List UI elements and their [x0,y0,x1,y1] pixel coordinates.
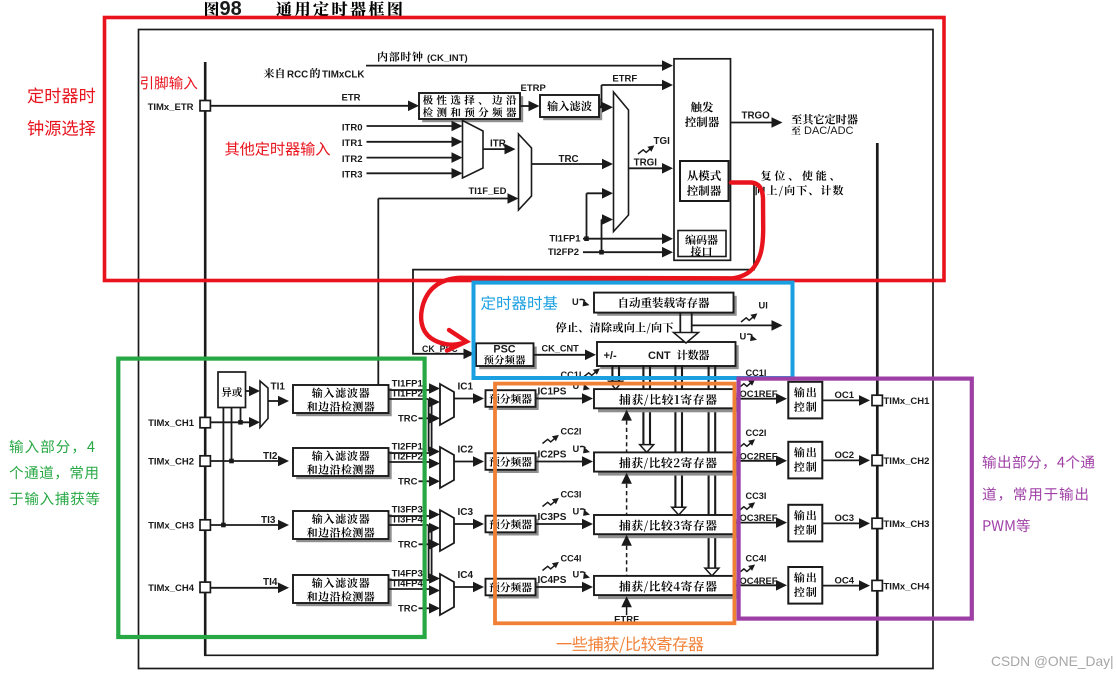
svg-text:TIMx_CH1: TIMx_CH1 [884,396,931,407]
block capture compare register 2 捕获/比较2寄存器 [594,452,738,475]
block input filter 输入滤波 [540,95,602,120]
wire OC3 [822,513,870,529]
block output control 1 输出控制 [788,382,822,419]
svg-text:CC2I: CC2I [746,428,767,438]
block capture compare register 3 捕获/比较3寄存器 [594,515,738,538]
flag CC3I [739,491,767,511]
wire ETRP [520,83,547,112]
flag CC3I input [543,490,582,507]
svg-text:TRC: TRC [398,414,418,425]
wire XOR output [246,386,261,397]
svg-text:TIMx_CH4: TIMx_CH4 [884,581,931,592]
svg-text:TI4FP4: TI4FP4 [392,579,424,590]
mux IC3 select [440,510,454,551]
wire ETRF to trigger controller [599,74,673,108]
wire XOR input from CH1 [238,408,243,425]
svg-text:OC2: OC2 [835,450,855,461]
annotation orange text 一些捕获/比较寄存器 [557,636,704,653]
flag CC2I input [543,427,582,444]
svg-text:+/-: +/- [604,350,617,362]
label 至其它定时器 至 DAC/ADC [791,114,857,137]
svg-text:CNT: CNT [648,350,671,362]
block prescaler IC1 预分频器 [486,390,539,410]
svg-text:TI1F_ED: TI1F_ED [468,186,506,197]
svg-text:IC4PS: IC4PS [538,575,567,586]
svg-text:TIMx_ETR: TIMx_ETR [148,102,194,113]
wire CNT to capture register 2 [640,365,654,452]
svg-text:IC2PS: IC2PS [538,449,567,460]
svg-text:ETRF: ETRF [612,74,637,85]
annotation purple text output channels [983,455,1095,532]
svg-text:U: U [573,569,580,579]
svg-text:TI3FP4: TI3FP4 [392,515,424,526]
pin TIMx_CH2 output [872,455,929,467]
event U into auto-reload [572,297,590,307]
wire OC3REF [735,512,788,528]
svg-text:ITR1: ITR1 [342,138,363,149]
svg-text:UI: UI [759,301,768,311]
wire IC4 [454,570,484,592]
wire TI4FP3 [389,569,432,581]
wire TRGI [629,158,674,174]
annotation blue text 定时器时基 [481,296,557,310]
annotation green frame input stage [118,359,424,637]
pin TIMx_CH1 output [872,395,930,407]
mux IC2 select [440,447,454,488]
svg-text:CC4I: CC4I [561,554,582,564]
block prescaler IC4 预分频器 [486,579,539,599]
annotation orange frame capture compare registers [495,384,734,624]
block auto-reload register 自动重装载寄存器 [594,293,737,316]
wire TRC channel 4 [398,603,440,615]
block output control 2 输出控制 [788,442,822,479]
block prescaler PSC 预分频器 [476,343,537,369]
svg-text:IC3PS: IC3PS [538,512,567,523]
block polarity selection 极性选择、边沿检测和预分频器 [419,93,523,122]
label 内部时钟 (CK_INT) [378,51,468,63]
svg-text:PSC: PSC [493,344,515,356]
outer diagram frame [139,30,934,669]
svg-text:CC3I: CC3I [746,491,767,501]
wire TRC channel 1 [398,413,440,425]
wire TI2FP2 [548,214,673,258]
pin TIMx_CH1 [148,417,210,429]
svg-text:OC2REF: OC2REF [740,450,778,461]
svg-text:U: U [573,506,580,516]
svg-text:TRC: TRC [398,540,418,551]
event U capture 2 [573,444,591,454]
mux IC1 select [440,384,454,425]
wire ITR0 [342,121,463,134]
svg-text:RCC: RCC [287,69,308,80]
svg-text:TI1: TI1 [271,382,286,393]
svg-text:TI4: TI4 [263,577,278,588]
wire CK_PSC from slave mode controller [413,184,754,360]
flag CC4I input [543,554,582,571]
block slave mode controller 从模式控制器 [680,161,729,201]
block prescaler IC3 预分频器 [486,516,539,536]
block encoder interface 编码器接口 [678,231,726,257]
wire compare dashed feedback 3 [621,535,632,576]
title 图98 通用定时器框图 [205,0,402,20]
svg-text:OC4REF: OC4REF [740,575,778,586]
wire CNT to capture register 4 [705,365,719,576]
wire ETR [210,92,419,111]
wire reload to counter hollow arrow [674,313,699,343]
wire TI2FP1 to IC1 mux [431,402,433,453]
pin TIMx_CH4 output [872,580,930,592]
mux TI1 select [260,381,268,428]
block capture compare register 1 捕获/比较1寄存器 [594,389,738,412]
wire ITR2 [342,152,463,165]
svg-text:ITR0: ITR0 [342,122,363,133]
svg-text:TRGO: TRGO [742,111,771,122]
wire update event [692,320,783,331]
wire TI4 [210,577,289,593]
svg-text:TI1FP2: TI1FP2 [392,389,423,400]
block prescaler IC2 预分频器 [486,453,539,473]
svg-text:TIMx_CH1: TIMx_CH1 [148,418,195,429]
svg-text:U: U [573,444,580,454]
svg-text:ITR: ITR [490,138,506,149]
wire bottom bus [204,654,878,656]
svg-text:CC4I: CC4I [746,553,767,563]
block output control 4 输出控制 [788,567,822,604]
flag CC1I left [561,368,600,379]
wire cross input 2 [429,446,440,457]
annotation purple frame output stage [739,379,972,619]
wire CK_CNT [534,343,597,360]
annotation red frame clock sources [105,18,945,281]
wire XOR input from CH2 [229,408,234,464]
flag CC2I [739,428,767,448]
wire OC2REF [735,450,788,466]
wire compare dashed feedback 2 [621,473,632,515]
wire TI1FP1 [549,188,673,245]
wire right output pin bus [876,143,879,655]
block trigger controller 触发控制器 [674,59,731,260]
wire TRC [532,154,614,169]
label 来自RCC的TIMxCLK [264,68,365,80]
svg-text:TIMx_CH4: TIMx_CH4 [148,583,195,594]
svg-text:TIMxCLK: TIMxCLK [322,69,364,80]
label 停止、清除或向上/向下 [556,322,674,334]
svg-text:TRC: TRC [398,604,418,615]
svg-text:TIMx_CH2: TIMx_CH2 [884,456,930,467]
wire CK_INT [366,60,673,71]
svg-text:TRGI: TRGI [634,158,658,169]
wire OC4 [822,575,870,591]
wire ETRF to capture register 4 [614,596,639,625]
event U capture 1 [573,381,591,391]
block capture compare register 4 捕获/比较4寄存器 [594,576,738,599]
svg-text:IC1: IC1 [458,382,474,393]
mux ITR select [463,121,484,179]
wire ITR [483,138,516,154]
svg-text:OC1REF: OC1REF [740,388,778,399]
wire TI3FP4 [389,515,429,526]
svg-text:TI3: TI3 [261,515,276,526]
svg-text:TI1FP1: TI1FP1 [549,234,581,245]
wire TI3FP4 to IC4 mux [428,525,430,579]
wire TI3FP3 [389,505,441,520]
event U down [740,332,758,342]
pin TIMx_CH3 output [872,518,929,530]
wire left input pin bus [204,62,207,655]
wire IC4PS [536,575,594,593]
block counter CNT 计数器 [597,342,739,369]
svg-text:TIMx_CH2: TIMx_CH2 [148,457,194,468]
wire IC2 [454,445,484,467]
block input filter and edge detector channel 1 输入滤波器和边沿检测器 [293,385,392,416]
wire compare dashed feedback 1 [621,410,632,453]
annotation red text 引脚输入 [141,76,198,89]
svg-text:TGI: TGI [654,136,671,147]
pin TIMx_CH3 [148,520,210,532]
flag UI [741,301,768,323]
wire OC4REF [735,575,788,591]
wire CNT to capture register 1 [609,365,623,389]
event U capture 4 [573,569,591,579]
block input filter and edge detector channel 3 输入滤波器和边沿检测器 [293,511,392,542]
wire CNT to capture register 3 [672,365,686,515]
svg-text:ETR: ETR [342,92,361,103]
svg-text:IC1PS: IC1PS [538,386,567,397]
wire TI1FP1 [389,379,441,394]
svg-text:TI2: TI2 [263,451,278,462]
svg-text:CC3I: CC3I [561,490,582,500]
svg-text:TRC: TRC [559,154,579,165]
svg-text:OC1: OC1 [835,390,855,401]
wire TI1F_ED [378,186,518,385]
wire ITR3 [342,168,463,181]
svg-text:TI2FP2: TI2FP2 [548,247,579,258]
pin TIMx_CH2 [148,456,210,468]
svg-text:TI2FP2: TI2FP2 [392,452,423,463]
pin TIMx_CH4 [148,582,210,594]
annotation red text 定时器时钟源选择 [28,87,96,135]
svg-text:IC4: IC4 [458,570,474,581]
mux IC4 select [440,574,454,615]
wire TI1FP2 [389,389,429,400]
wire IC3PS [536,512,594,530]
svg-text:TIMx_CH3: TIMx_CH3 [148,521,194,532]
wire TI2FP2 [389,452,441,469]
annotation green text input channels [10,440,100,506]
svg-text:DAC/ADC: DAC/ADC [804,125,854,137]
wire IC2PS [536,449,594,467]
svg-text:CSDN @ONE_Day|: CSDN @ONE_Day| [991,654,1114,669]
wire cross input 4 [429,573,440,584]
block input filter and edge detector channel 4 输入滤波器和边沿检测器 [293,575,392,606]
annotation red hand-drawn loop [421,183,763,351]
wire TI2FP1 [389,442,432,454]
svg-text:U: U [740,332,747,342]
wire TIMx_CH1 to TI1 mux [210,417,260,428]
annotation red text 其他定时器输入 [225,142,330,156]
wire TI4FP4 [389,579,441,596]
wire TI1FP2 to IC2 mux [428,399,430,452]
svg-text:U: U [572,297,579,307]
wire TRGO [731,111,783,128]
svg-text:OC3REF: OC3REF [740,512,778,523]
block input filter and edge detector channel 2 输入滤波器和边沿检测器 [293,448,392,479]
svg-text:ITR3: ITR3 [342,170,363,181]
wire IC1PS [536,386,594,404]
flag CC4I [739,553,767,573]
mux trigger input select [614,92,629,232]
flag TGI [638,136,670,154]
wire ETRF to trigger mux [599,102,613,113]
wire ITR1 [342,137,463,150]
wire OC2 [822,450,870,466]
svg-text:CC2I: CC2I [561,427,582,437]
svg-text:OC4: OC4 [835,575,855,586]
pin TIMx_ETR [148,101,211,113]
svg-text:TRC: TRC [398,477,418,488]
svg-text:OC3: OC3 [835,513,855,524]
svg-text:IC2: IC2 [458,445,474,456]
wire IC3 [454,507,484,529]
wire OC1 [822,390,870,406]
flag CC1I [739,368,767,388]
mux TRC select [519,134,532,210]
wire TRC channel 3 [398,539,440,551]
svg-text:IC3: IC3 [458,507,474,518]
wire TI3 [210,515,289,531]
wire IC1 [454,382,484,404]
label 复位、使能、向上/向下、计数 [756,170,844,196]
wire TI2 [210,451,289,467]
block XOR 异或 [218,372,246,408]
wire cross input 3 [429,523,440,534]
wire XOR input from CH3 [221,408,226,528]
annotation blue frame time base [474,283,793,378]
svg-text:(CK_INT): (CK_INT) [427,53,468,64]
block output control 3 输出控制 [788,505,822,542]
wire TI1 [268,382,289,407]
svg-text:ETRP: ETRP [521,83,547,94]
wire OC1REF [735,388,788,404]
svg-text:CK_CNT: CK_CNT [542,343,580,353]
wire cross input 1 [429,397,440,408]
wire TRC channel 2 [398,476,440,488]
watermark CSDN [991,654,1114,669]
event U capture 3 [573,506,591,516]
wire TI4FP3 to IC3 mux [431,528,433,580]
svg-text:TIMx_CH3: TIMx_CH3 [884,519,930,530]
svg-text:ITR2: ITR2 [342,154,363,165]
